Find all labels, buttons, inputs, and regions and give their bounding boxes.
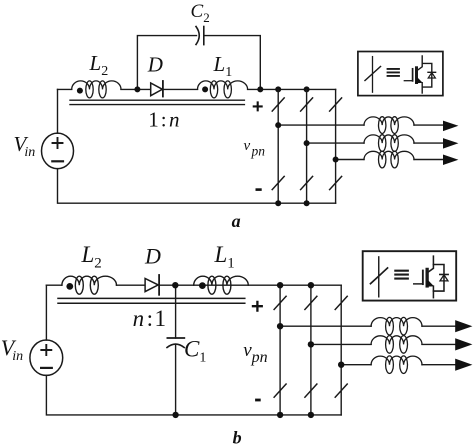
svg-text:1:n: 1:n (148, 108, 179, 132)
svg-text:b: b (233, 427, 242, 445)
svg-text:L1: L1 (214, 242, 235, 272)
svg-text:L2: L2 (89, 51, 109, 79)
svg-text:L2: L2 (81, 242, 102, 272)
svg-text:vpn: vpn (243, 340, 267, 366)
svg-text:Vin: Vin (14, 132, 36, 160)
svg-text:L1: L1 (213, 52, 233, 80)
svg-text:n:1: n:1 (133, 306, 166, 331)
svg-text:C2: C2 (191, 1, 210, 25)
svg-text:vpn: vpn (244, 138, 266, 159)
svg-text:D: D (144, 243, 161, 268)
svg-text:a: a (232, 211, 241, 231)
svg-text:Vin: Vin (1, 335, 23, 364)
svg-text:D: D (147, 53, 163, 77)
svg-text:C1: C1 (184, 337, 206, 366)
